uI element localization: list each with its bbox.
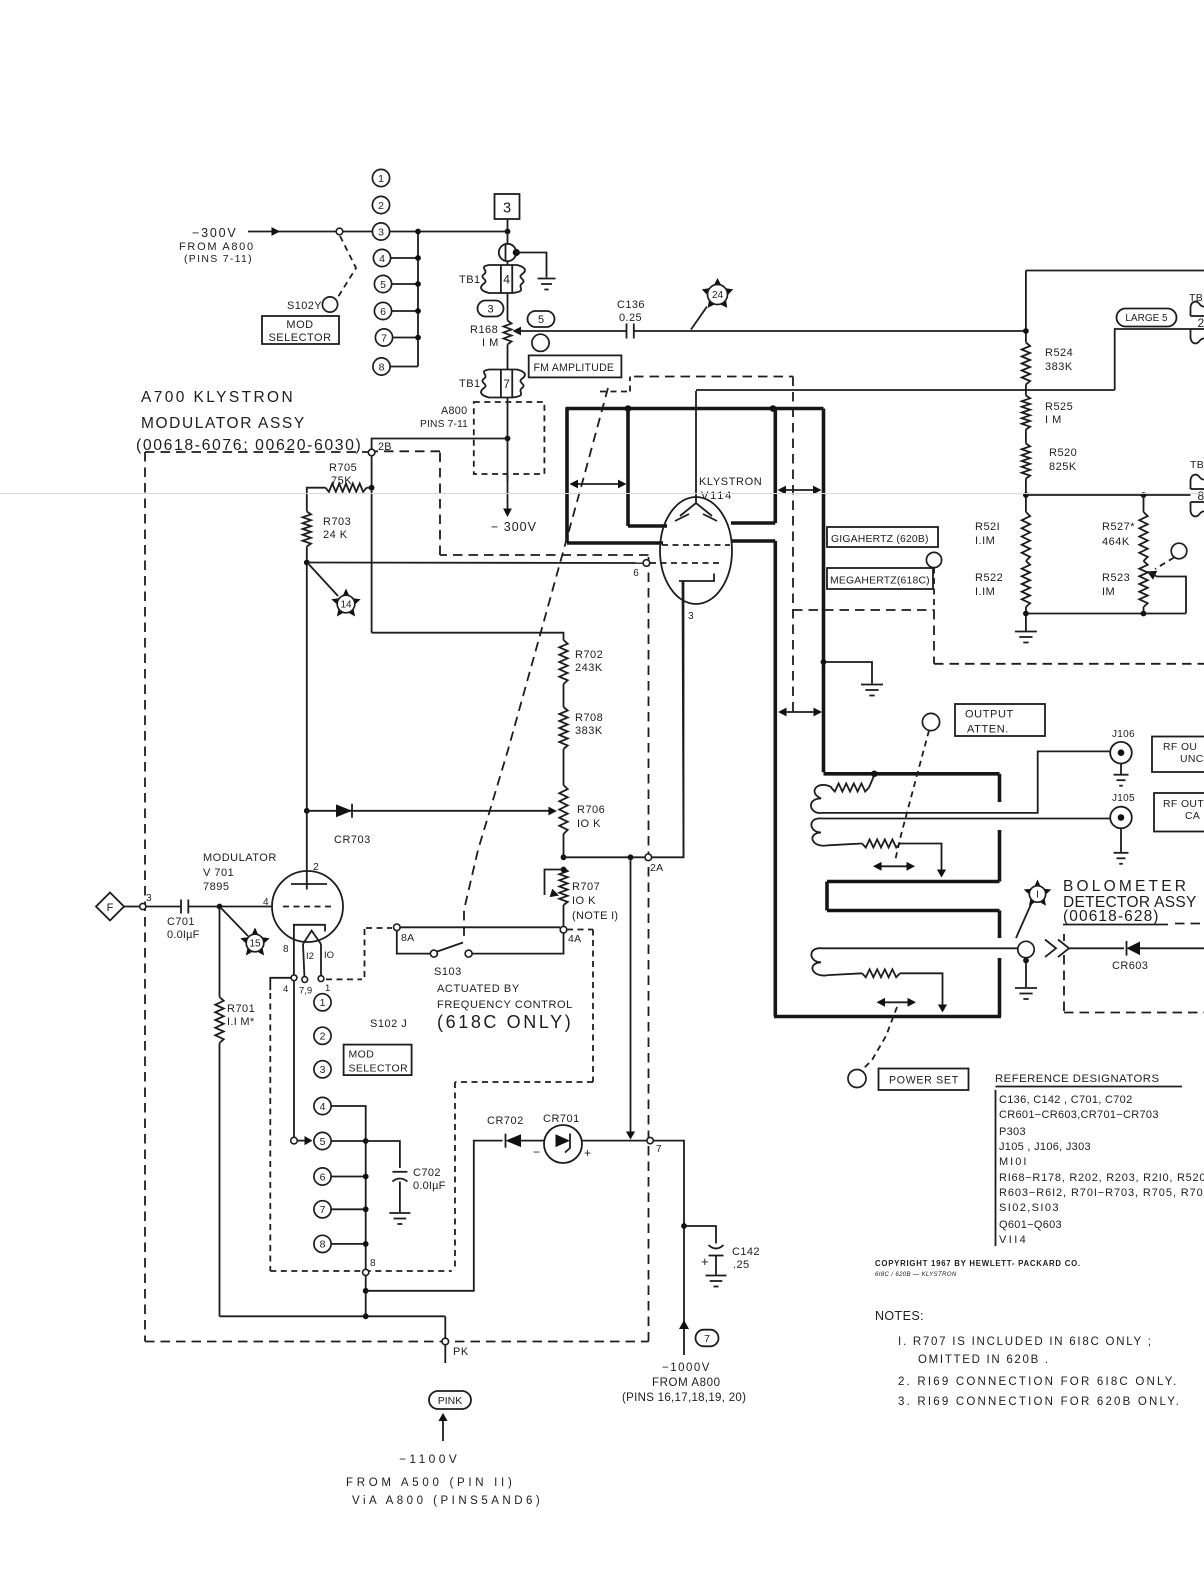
resistor R705 75K bbox=[326, 484, 367, 492]
svg-text:3: 3 bbox=[487, 303, 493, 315]
svg-text:3: 3 bbox=[688, 611, 694, 622]
tube V114 cathode wires bbox=[680, 503, 712, 516]
svg-text:V114: V114 bbox=[701, 490, 733, 502]
node pin3 open terminal bbox=[140, 903, 146, 909]
adjust arrow attenuator upper bbox=[875, 865, 913, 867]
svg-text:8: 8 bbox=[379, 361, 385, 373]
wire C701 to grid node bbox=[188, 906, 219, 908]
cavity tuning arrow right bbox=[780, 489, 820, 491]
svg-text:464K: 464K bbox=[1102, 536, 1130, 548]
waveguide septum upper bbox=[827, 880, 1000, 884]
svg-text:75K: 75K bbox=[331, 475, 352, 487]
tube V701 cathode bbox=[293, 925, 325, 932]
svg-text:7,9: 7,9 bbox=[299, 986, 312, 997]
wire F to C701 bbox=[124, 906, 140, 908]
svg-text:NOTES:: NOTES: bbox=[875, 1309, 924, 1323]
callout line to sunburst 1 bbox=[1016, 902, 1032, 938]
svg-text:7: 7 bbox=[503, 377, 510, 391]
svg-text:1: 1 bbox=[325, 983, 330, 994]
cavity right upper horizontal bbox=[731, 521, 775, 525]
resistor R701 1.1M bbox=[215, 997, 223, 1043]
svg-text:6: 6 bbox=[633, 568, 639, 579]
svg-text:7: 7 bbox=[656, 1144, 662, 1155]
svg-text:J105 , J106, J303: J105 , J106, J303 bbox=[999, 1141, 1091, 1153]
svg-text:2: 2 bbox=[378, 200, 384, 212]
label FM AMPLITUDE box bbox=[529, 355, 622, 377]
svg-text:R168: R168 bbox=[470, 324, 498, 336]
wire V114 cathode feed bbox=[695, 391, 697, 504]
callout line to sunburst 14 bbox=[309, 565, 338, 597]
svg-text:243K: 243K bbox=[575, 662, 603, 674]
node oval 5 label bbox=[528, 311, 555, 327]
svg-text:RI68−R178, R202, R203, R2I0, R: RI68−R178, R202, R203, R2I0, R520 bbox=[999, 1172, 1204, 1184]
node S102J contact 1 bbox=[318, 976, 324, 982]
wire R520 to divider node bbox=[1025, 479, 1027, 513]
wire -300V bus top right bbox=[1026, 270, 1204, 272]
svg-text:7: 7 bbox=[320, 1204, 326, 1216]
wire jack to TB1-4 bbox=[507, 261, 509, 265]
junction dot cavity top right bbox=[770, 405, 777, 412]
wire R701 down to PK rail bbox=[219, 1043, 221, 1316]
svg-text:R524: R524 bbox=[1045, 347, 1073, 359]
assembly A700 dashed notch top bbox=[375, 450, 440, 452]
assembly A700 dashed outline right edge bbox=[648, 555, 650, 1342]
assembly oscillator dashed mid horizontal bbox=[793, 609, 934, 611]
wire R523 wiper bbox=[1147, 571, 1157, 580]
attenuator 3 coupling loop bbox=[811, 948, 828, 975]
svg-text:OMITTED IN 620B .: OMITTED IN 620B . bbox=[918, 1354, 1050, 1366]
wire contact4 stub left bbox=[270, 978, 291, 990]
assembly A700 dashed notch horizontal bbox=[440, 554, 649, 556]
wire contact4 down to wiper bbox=[293, 981, 295, 1138]
svg-text:CR603: CR603 bbox=[1112, 960, 1148, 972]
resistor R522 1.1M bbox=[1022, 561, 1030, 607]
junction dot R707 wiper tap bbox=[561, 867, 567, 873]
waveguide septum lower bbox=[827, 909, 1000, 913]
wire to CR702 diode line bbox=[366, 1141, 503, 1291]
dashed linkage output atten bbox=[895, 731, 929, 862]
wire position4 tap bbox=[331, 1106, 366, 1141]
svg-text:3: 3 bbox=[378, 226, 384, 238]
svg-text:MEGAHERTZ(618C): MEGAHERTZ(618C) bbox=[830, 576, 930, 587]
svg-text:PINS 7-11: PINS 7-11 bbox=[420, 419, 468, 430]
S102Y wafer contact 7 bbox=[375, 329, 392, 346]
label RF OUT CAL box bbox=[1154, 793, 1204, 832]
S102Y wafer contact 1 bbox=[372, 169, 389, 186]
svg-text:F: F bbox=[107, 902, 114, 914]
wire S102J bus bbox=[365, 1141, 367, 1269]
node S102J position 5 bbox=[314, 1132, 331, 1149]
resistor R702 243K bbox=[559, 640, 567, 684]
svg-text:8: 8 bbox=[320, 1239, 326, 1251]
assembly oscillator dashed drop bbox=[933, 610, 935, 664]
junction dot R527 top bbox=[1141, 492, 1147, 498]
wire cathode to R525 node bbox=[696, 389, 1115, 391]
svg-text:CR702: CR702 bbox=[487, 1115, 524, 1127]
diode CR603 bbox=[1127, 942, 1141, 956]
waveguide left wall bbox=[773, 541, 777, 1017]
svg-text:VII4: VII4 bbox=[999, 1234, 1028, 1246]
assembly A800 PINS 7-11 dashed box bbox=[474, 402, 545, 474]
svg-text:R523: R523 bbox=[1102, 572, 1130, 584]
wire divider node to TB2-8 bbox=[1026, 494, 1191, 496]
node S102J contact 7,9 bbox=[302, 977, 308, 983]
node bolometer mount circle bbox=[1018, 941, 1034, 957]
wire 8A down to switch bbox=[397, 931, 431, 954]
svg-text:KLYSTRON: KLYSTRON bbox=[699, 476, 762, 488]
wire arrow to -300V out bbox=[507, 474, 509, 511]
label MEGAHERTZ 618C box bbox=[827, 568, 933, 589]
svg-text:6: 6 bbox=[320, 1171, 326, 1183]
svg-text:IM: IM bbox=[1102, 586, 1115, 598]
cavity tuning arrow lower bbox=[780, 711, 820, 713]
svg-text:2: 2 bbox=[313, 861, 319, 873]
S102Y wafer contact 5 bbox=[374, 275, 391, 292]
svg-text:R705: R705 bbox=[329, 462, 357, 474]
tube V701 heater bbox=[303, 931, 321, 944]
svg-text:RF OUT: RF OUT bbox=[1163, 799, 1204, 810]
waveguide right wall mid bbox=[998, 830, 1002, 882]
ground at bolometer bbox=[1015, 987, 1037, 989]
waveguide right wall upper bbox=[998, 774, 1002, 802]
svg-text:ACTUATED BY: ACTUATED BY bbox=[437, 983, 520, 995]
svg-text:R706: R706 bbox=[577, 804, 605, 816]
svg-text:0.25: 0.25 bbox=[619, 312, 642, 324]
control circle FM AMPLITUDE bbox=[532, 334, 549, 351]
junction dot R703 bottom bbox=[304, 560, 310, 566]
svg-text:R707: R707 bbox=[572, 881, 600, 893]
wire attenuator 3 drop bbox=[900, 973, 943, 1006]
svg-text:383K: 383K bbox=[575, 725, 603, 737]
svg-text:− 300V: − 300V bbox=[491, 520, 537, 534]
wire terminal8 down bbox=[365, 1276, 367, 1317]
attenuator 1 coupling loop bbox=[811, 785, 832, 813]
cavity left wall bbox=[565, 409, 569, 544]
scan artifact line bbox=[0, 493, 1204, 495]
ground at jack bbox=[538, 278, 556, 280]
svg-text:I2: I2 bbox=[306, 951, 314, 962]
svg-text:FREQUENCY CONTROL: FREQUENCY CONTROL bbox=[437, 999, 573, 1011]
waveguide bottom wall bbox=[774, 1015, 1001, 1019]
node 4A open terminal bbox=[560, 926, 567, 933]
node PINK oval label bbox=[429, 1391, 471, 1409]
node open terminal on -300V wire bbox=[336, 228, 343, 235]
wire tap contact8 bbox=[390, 366, 418, 368]
svg-text:TB1: TB1 bbox=[459, 378, 481, 390]
terminal board TB1 terminal 4 bbox=[481, 265, 525, 293]
svg-text:4: 4 bbox=[320, 1101, 326, 1113]
tube V114 envelope bbox=[660, 497, 732, 604]
svg-text:I.IM: I.IM bbox=[975, 535, 995, 547]
svg-text:CR701: CR701 bbox=[543, 1113, 580, 1125]
svg-text:R603−R6I2, R70I−R703, R705, R7: R603−R6I2, R70I−R703, R705, R70 bbox=[999, 1187, 1204, 1199]
resistor R703 24K bbox=[303, 512, 311, 547]
assembly detector dashed left edge bbox=[1063, 934, 1065, 941]
svg-text:4: 4 bbox=[379, 253, 385, 265]
svg-text:3: 3 bbox=[320, 1064, 326, 1076]
svg-text:2. RI69 CONNECTION FOR 6I8: 2. RI69 CONNECTION FOR 6I8C ONLY. bbox=[898, 1376, 1179, 1388]
junction dot mid 2A wire bbox=[628, 854, 634, 860]
wire S102Y bus vertical bbox=[417, 232, 419, 367]
wire R527 R523 leads bbox=[1143, 495, 1145, 512]
svg-text:(PINS 7-11): (PINS 7-11) bbox=[184, 253, 253, 265]
svg-text:LARGE 5: LARGE 5 bbox=[1125, 313, 1168, 324]
terminal board TB1 terminal 7 bbox=[481, 370, 525, 398]
node terminal 8 of wafer bbox=[363, 1269, 369, 1275]
svg-text:3: 3 bbox=[146, 893, 152, 904]
label RF OUT UNCAL box bbox=[1152, 737, 1204, 773]
waveguide septum left bbox=[825, 882, 829, 911]
svg-text:15: 15 bbox=[249, 939, 261, 950]
ground at divider bbox=[1015, 631, 1037, 633]
control circle POWER SET bbox=[848, 1070, 866, 1088]
svg-text:2A: 2A bbox=[650, 862, 663, 874]
svg-text:5: 5 bbox=[538, 314, 544, 326]
wire terminal to S102Y contact 3 bbox=[343, 231, 373, 233]
wire RF line to J106 bbox=[822, 751, 1109, 813]
waveguide right wall lower bbox=[998, 911, 1002, 939]
wire tap contact5 bbox=[392, 283, 418, 285]
svg-text:TB1: TB1 bbox=[459, 274, 481, 286]
node LARGE 5 oval label bbox=[1117, 309, 1177, 327]
assembly inner dashed left edge bbox=[269, 993, 271, 1271]
node oval 7 label bbox=[696, 1330, 719, 1347]
svg-text:825K: 825K bbox=[1049, 461, 1077, 473]
wire 8A to 4A bbox=[400, 926, 560, 928]
dashed linkage frequency control long diagonal bbox=[464, 388, 608, 940]
svg-text:7895: 7895 bbox=[203, 881, 229, 893]
switch S102Y wiper circle bbox=[322, 297, 337, 312]
switch S102J wiper open circle bbox=[291, 1137, 298, 1144]
svg-text:+: + bbox=[584, 1146, 591, 1160]
svg-text:TB: TB bbox=[1189, 292, 1203, 304]
wire grid line to klystron pin 6 bbox=[307, 562, 643, 565]
svg-text:5: 5 bbox=[380, 279, 386, 291]
svg-text:7: 7 bbox=[704, 1333, 710, 1345]
junction dot cavity top left bbox=[625, 405, 632, 412]
svg-text:A800: A800 bbox=[441, 405, 467, 417]
svg-text:SI02,SI03: SI02,SI03 bbox=[999, 1202, 1060, 1214]
junction dot R523 bottom bbox=[1141, 611, 1147, 617]
tube V114 anode dashed bbox=[662, 544, 730, 546]
svg-text:CR601−CR603,CR701−CR703: CR601−CR603,CR701−CR703 bbox=[999, 1109, 1159, 1121]
svg-text:8: 8 bbox=[1198, 489, 1204, 503]
svg-text:MODULATOR ASSY: MODULATOR ASSY bbox=[141, 415, 306, 432]
svg-text:FROM A800: FROM A800 bbox=[652, 1377, 721, 1389]
svg-text:5: 5 bbox=[320, 1136, 326, 1148]
junction dot PK rail bbox=[363, 1313, 369, 1319]
wire R705 left to R703 bbox=[307, 488, 326, 512]
cavity right inner vertical bbox=[773, 409, 777, 524]
ground at C702 bbox=[389, 1212, 410, 1214]
control circle OUTPUT ATTEN bbox=[922, 713, 939, 730]
svg-text:I: I bbox=[1036, 890, 1039, 901]
wire bus to node 3 box bbox=[418, 231, 505, 233]
svg-text:MODULATOR: MODULATOR bbox=[203, 852, 277, 864]
svg-text:24 K: 24 K bbox=[323, 529, 348, 541]
junction dot 2B wire bbox=[505, 436, 511, 442]
wire position5 tap bbox=[331, 1140, 366, 1142]
node S102J position 3 bbox=[314, 1061, 331, 1078]
resistor attenuator 2 vane bbox=[862, 840, 900, 848]
svg-text:R520: R520 bbox=[1049, 447, 1077, 459]
svg-text:OUTPUT: OUTPUT bbox=[965, 709, 1014, 721]
svg-text:IO K: IO K bbox=[572, 895, 596, 907]
cavity lower right horizontal bbox=[731, 539, 775, 543]
wire switch to 4A riser bbox=[472, 933, 563, 954]
potentiometer R707 10K bbox=[559, 868, 567, 905]
svg-text:(NOTE I): (NOTE I) bbox=[572, 910, 618, 922]
callout line to sunburst 15 bbox=[222, 909, 249, 937]
wire tap contact4 bbox=[391, 257, 418, 259]
input connector F diamond bbox=[96, 893, 124, 921]
node sunburst 14 bbox=[331, 589, 360, 617]
junction dot bolometer ground bbox=[1023, 958, 1029, 964]
node PK open terminal bbox=[442, 1338, 449, 1345]
label MOD SELECTOR box (S102J) bbox=[344, 1045, 412, 1076]
wire -1100V arrow bbox=[442, 1419, 444, 1441]
resistor attenuator 3 vane bbox=[862, 969, 900, 977]
wire -300V feed bbox=[248, 231, 336, 233]
label GIGAHERTZ 620B box bbox=[827, 527, 938, 547]
svg-text:COPYRIGHT 1967 BY HEWLETT-: COPYRIGHT 1967 BY HEWLETT- PACKARD CO. bbox=[875, 1259, 1081, 1268]
svg-text:0.0IµF: 0.0IµF bbox=[167, 929, 200, 941]
callout line sunburst 24 bbox=[691, 307, 707, 330]
wire attenuator 1 to top wall bbox=[869, 775, 874, 788]
wire R706 to 2A node bbox=[563, 834, 565, 857]
capacitor C142 .25 bbox=[709, 1245, 724, 1249]
svg-text:R52I: R52I bbox=[975, 521, 1000, 533]
wire C142 branch bbox=[684, 1226, 716, 1244]
junction dots on S102Y bus bbox=[415, 229, 421, 235]
tube V701 plate bbox=[291, 883, 327, 885]
svg-text:MOD: MOD bbox=[349, 1049, 375, 1061]
wire klystron output down bbox=[822, 409, 826, 773]
assembly inner dashed right edge lower bbox=[454, 1082, 456, 1271]
svg-text:A700 KLYSTRON: A700 KLYSTRON bbox=[141, 389, 295, 406]
wire R707 to 4A bbox=[563, 905, 565, 927]
capacitor C702 0.01uF bbox=[392, 1171, 407, 1173]
svg-text:V 701: V 701 bbox=[203, 867, 234, 879]
assembly inner dashed jog bbox=[455, 1081, 593, 1083]
svg-text:S102 J: S102 J bbox=[370, 1018, 407, 1030]
assembly oscillator dashed right edge bbox=[792, 377, 794, 713]
cavity tuning arrow left bbox=[572, 483, 625, 485]
wire grid node to R701 bbox=[219, 907, 221, 998]
wire bolometer ground stem bbox=[1025, 958, 1027, 987]
resistor attenuator 1 vane bbox=[831, 784, 869, 792]
wire R707 rheostat loop bbox=[545, 870, 564, 896]
svg-text:(00618-628): (00618-628) bbox=[1063, 908, 1160, 925]
node S102J position 6 bbox=[314, 1168, 331, 1185]
svg-text:R525: R525 bbox=[1045, 401, 1073, 413]
svg-text:4: 4 bbox=[503, 272, 510, 286]
assembly A700 dashed outline top edge bbox=[145, 451, 368, 453]
tube V701 grid dashed bbox=[283, 906, 331, 908]
wire position8 tap bbox=[331, 1243, 366, 1245]
svg-text:ATTEN.: ATTEN. bbox=[967, 724, 1009, 736]
svg-text:REFERENCE DESIGNATORS: REFERENCE DESIGNATORS bbox=[995, 1073, 1160, 1085]
svg-text:(PINS 16,17,18,19, 20): (PINS 16,17,18,19, 20) bbox=[622, 1392, 746, 1404]
node S102J position 7 bbox=[314, 1201, 331, 1218]
label MOD SELECTOR box (S102Y) bbox=[262, 316, 339, 344]
svg-text:S103: S103 bbox=[434, 966, 462, 978]
assembly inner dashed right edge upper bbox=[592, 930, 594, 1083]
node numbered box 3 bbox=[495, 194, 520, 219]
svg-text:1: 1 bbox=[320, 997, 326, 1009]
svg-text:3: 3 bbox=[503, 201, 511, 217]
svg-text:SELECTOR: SELECTOR bbox=[268, 332, 331, 344]
diode CR701 regulator bbox=[544, 1125, 582, 1163]
svg-text:PK: PK bbox=[453, 1346, 469, 1358]
wire node7 to C142 rail bbox=[653, 1141, 684, 1355]
wire PK stub bbox=[444, 1345, 446, 1363]
svg-text:R701: R701 bbox=[227, 1003, 255, 1015]
S102Y wafer contact 4 bbox=[373, 249, 390, 266]
waveguide output probe chevrons bbox=[1045, 940, 1056, 958]
svg-text:FROM A800: FROM A800 bbox=[179, 241, 255, 253]
junction dot grid node bbox=[217, 904, 223, 910]
junction dot ground tee bbox=[821, 659, 827, 665]
assembly oscillator dashed top edge bbox=[634, 376, 793, 378]
resistor R524 383K bbox=[1022, 343, 1030, 385]
svg-text:IO K: IO K bbox=[577, 818, 601, 830]
wire TB1-4 down to R168 bbox=[507, 293, 509, 321]
node oval 3 label bbox=[478, 301, 504, 317]
waveguide right wall bottom bbox=[998, 958, 1002, 1017]
dashed linkage frequency to boundary bbox=[933, 568, 935, 611]
assembly inner dashed from 4A right bbox=[567, 929, 593, 931]
svg-text:0.0IµF: 0.0IµF bbox=[413, 1180, 446, 1192]
wire R525 to R520 bbox=[1025, 430, 1027, 444]
label OUTPUT ATTEN box bbox=[955, 704, 1045, 736]
svg-text:−300V: −300V bbox=[192, 226, 238, 240]
assembly detector dashed top bbox=[1175, 923, 1204, 925]
connector J106 bbox=[1110, 742, 1132, 764]
control circle frequency dial bbox=[926, 552, 941, 567]
potentiometer R523 1M bbox=[1139, 561, 1147, 607]
node S102J position 8 bbox=[314, 1235, 331, 1252]
node 2A open terminal bbox=[645, 854, 652, 861]
wire PK drop bbox=[444, 1316, 446, 1338]
svg-text:24: 24 bbox=[712, 290, 724, 301]
wire CR603 out bbox=[1140, 947, 1204, 949]
node sunburst 15 bbox=[240, 928, 269, 956]
junction dot C142 branch bbox=[681, 1223, 687, 1229]
capacitor C701 0.01uF bbox=[180, 900, 182, 914]
wire pin4 to tube bbox=[220, 906, 273, 908]
node klystron pin 6 open terminal bbox=[643, 560, 650, 567]
wire cathode pin8 to contact4 bbox=[293, 925, 295, 975]
wire heater legs to contacts bbox=[303, 944, 304, 976]
assembly inner dashed bottom edge bbox=[270, 1270, 452, 1272]
adjust arrow attenuator lower bbox=[879, 1001, 915, 1003]
svg-text:I. R707 IS INCLUDED IN 6I8: I. R707 IS INCLUDED IN 6I8C ONLY ; bbox=[898, 1336, 1153, 1348]
ground at J106 bbox=[1120, 764, 1122, 775]
resistor R520 825K bbox=[1022, 444, 1030, 479]
svg-text:GIGAHERTZ (620B): GIGAHERTZ (620B) bbox=[831, 534, 929, 545]
svg-text:MOD: MOD bbox=[286, 319, 313, 331]
svg-text:383K: 383K bbox=[1045, 361, 1073, 373]
svg-text:4: 4 bbox=[263, 897, 269, 908]
node S102J contact 4 bbox=[291, 975, 297, 981]
svg-text:SELECTOR: SELECTOR bbox=[349, 1063, 409, 1075]
wire arrow into R706 wiper bbox=[548, 807, 557, 816]
cavity top wall bbox=[566, 407, 824, 411]
svg-text:FROM A500 (PIN II): FROM A500 (PIN II) bbox=[346, 1477, 515, 1489]
cavity inner wall horizontal bbox=[628, 524, 667, 528]
svg-text:C701: C701 bbox=[167, 916, 195, 928]
